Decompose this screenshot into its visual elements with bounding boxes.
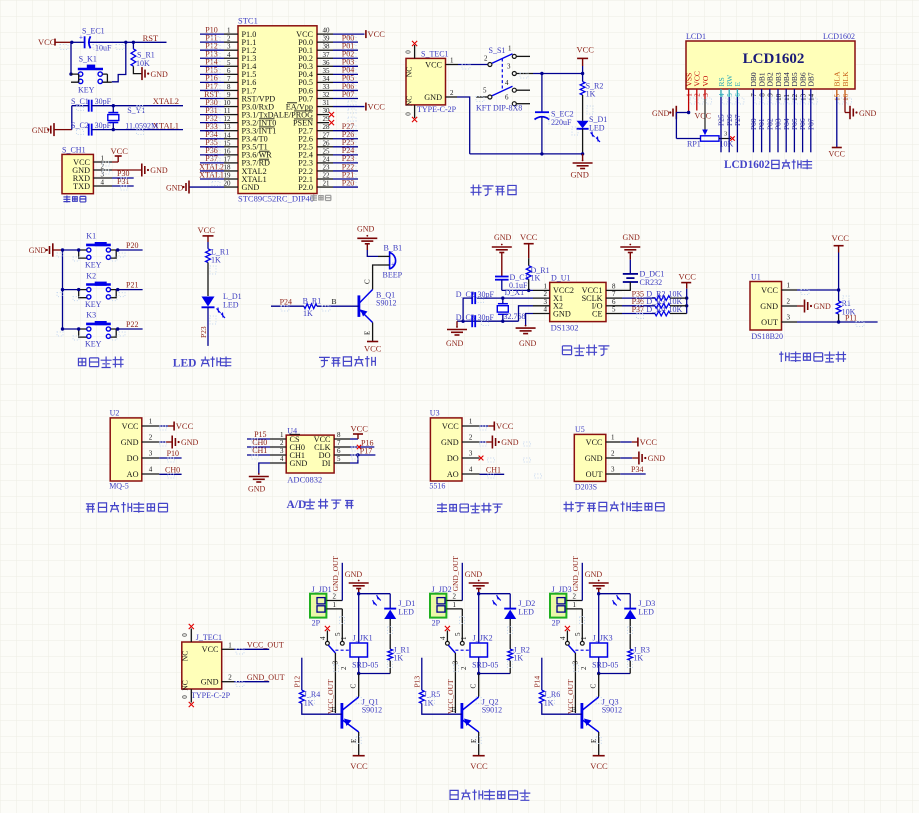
svg-text:GND: GND bbox=[424, 93, 442, 102]
diode J_D1 LED bbox=[373, 594, 416, 649]
svg-text:RST: RST bbox=[143, 33, 159, 43]
resistor D_R3 bbox=[622, 297, 687, 308]
svg-text:6: 6 bbox=[337, 447, 341, 455]
pin 25 STC1 right bbox=[298, 146, 358, 160]
svg-text:S_Y1: S_Y1 bbox=[127, 106, 145, 115]
ground bbox=[112, 164, 168, 177]
wire bbox=[350, 732, 359, 756]
svg-text:S9012: S9012 bbox=[362, 706, 382, 715]
svg-text:16: 16 bbox=[224, 147, 232, 155]
relay contact 4 bbox=[319, 626, 330, 645]
wire P27 bbox=[733, 89, 742, 152]
wire GND_OUT bbox=[222, 674, 270, 682]
wire CH1 bbox=[480, 473, 505, 475]
wire bbox=[590, 674, 599, 698]
pin 16 LCD1 BLK bbox=[841, 71, 850, 101]
svg-text:OUT: OUT bbox=[586, 470, 603, 479]
svg-text:STC1: STC1 bbox=[238, 16, 258, 26]
svg-text:D_X1: D_X1 bbox=[505, 288, 525, 297]
power flag VCC bbox=[38, 37, 56, 47]
svg-text:1K: 1K bbox=[633, 654, 643, 663]
svg-text:OUT: OUT bbox=[761, 318, 778, 327]
net label P24 bbox=[280, 297, 292, 306]
svg-text:P17: P17 bbox=[360, 446, 372, 455]
pin 2 wire bbox=[326, 563, 342, 601]
ground bbox=[652, 106, 689, 119]
net label P15 bbox=[254, 430, 266, 439]
svg-text:D_U1: D_U1 bbox=[551, 274, 571, 283]
power flag VCC bbox=[364, 342, 382, 354]
svg-text:VCC: VCC bbox=[442, 422, 459, 431]
wire X1 bbox=[475, 296, 533, 299]
pin 12 STC1 left bbox=[200, 114, 276, 128]
label PIR module bbox=[564, 502, 665, 512]
svg-text:GND: GND bbox=[760, 302, 778, 311]
pin 8 LCD1 DB1 bbox=[757, 72, 766, 97]
overlines bbox=[259, 119, 275, 159]
connector J_JD3 bbox=[550, 585, 572, 628]
svg-text:GND: GND bbox=[151, 70, 169, 79]
power flag VCC bbox=[350, 424, 368, 440]
power flag VCC bbox=[832, 233, 850, 301]
pin 27 STC1 right bbox=[298, 130, 358, 144]
wire BLA bbox=[829, 89, 845, 159]
svg-text:1: 1 bbox=[573, 601, 577, 609]
power flag VCC bbox=[159, 421, 193, 431]
svg-text:0: 0 bbox=[181, 633, 189, 637]
svg-text:2: 2 bbox=[484, 54, 488, 62]
resistor J_R1 bbox=[388, 646, 410, 674]
wire VSS bbox=[687, 89, 690, 114]
svg-text:7: 7 bbox=[750, 93, 758, 97]
pin 5 U4 bbox=[322, 455, 350, 468]
svg-text:VCC: VCC bbox=[38, 37, 56, 47]
svg-text:1: 1 bbox=[580, 636, 588, 640]
pin 10 LCD1 DB3 bbox=[774, 72, 783, 101]
svg-text:B: B bbox=[332, 297, 337, 306]
wire P20 bbox=[116, 248, 143, 251]
diode L_D1 LED bbox=[202, 292, 242, 318]
svg-text:VCC: VCC bbox=[695, 112, 711, 121]
label buzzer circuit bbox=[319, 356, 376, 367]
svg-text:1: 1 bbox=[228, 641, 232, 649]
key K3 bbox=[79, 311, 117, 349]
svg-text:GND: GND bbox=[623, 233, 641, 242]
svg-text:2: 2 bbox=[580, 666, 588, 670]
svg-text:9: 9 bbox=[767, 93, 775, 97]
svg-text:40: 40 bbox=[323, 27, 331, 35]
wire P25 bbox=[717, 89, 726, 152]
svg-text:VCC: VCC bbox=[586, 438, 603, 447]
pin 14 STC1 left bbox=[200, 130, 268, 144]
svg-text:U1: U1 bbox=[751, 273, 761, 282]
svg-text:8: 8 bbox=[337, 431, 341, 439]
svg-text:GND: GND bbox=[248, 485, 266, 494]
ghost marks bbox=[57, 37, 864, 744]
svg-text:20: 20 bbox=[224, 180, 232, 188]
svg-text:3: 3 bbox=[787, 314, 791, 322]
pin 0 top bbox=[405, 41, 418, 59]
pin 39 STC1 right bbox=[298, 33, 358, 47]
wire bbox=[470, 152, 585, 155]
connector J_JD2 bbox=[430, 585, 452, 628]
svg-text:3: 3 bbox=[452, 660, 460, 664]
svg-text:NC: NC bbox=[181, 651, 190, 661]
pin 2 U3 bbox=[441, 434, 480, 447]
pin 3 U3 bbox=[447, 450, 480, 463]
transistor J_Q3 bbox=[582, 697, 622, 732]
wire bbox=[357, 672, 390, 675]
svg-text:33: 33 bbox=[323, 83, 331, 91]
net label RST bbox=[143, 33, 159, 43]
svg-text:2: 2 bbox=[340, 666, 348, 670]
pin 7 U4 bbox=[314, 439, 350, 452]
svg-text:A/D: A/D bbox=[287, 499, 307, 511]
svg-text:2: 2 bbox=[280, 439, 284, 447]
svg-text:3: 3 bbox=[280, 447, 284, 455]
label download port bbox=[63, 196, 85, 203]
pin 1 wire bbox=[566, 601, 584, 645]
pin 21 STC1 right bbox=[298, 178, 358, 192]
wire VCC pin2 bbox=[695, 89, 711, 121]
svg-text:1: 1 bbox=[611, 434, 615, 442]
svg-text:8: 8 bbox=[227, 83, 231, 91]
wire bbox=[350, 455, 358, 463]
wire RST net bbox=[70, 41, 166, 44]
capacitor S_EC2 bbox=[535, 74, 574, 154]
wire bbox=[350, 674, 359, 698]
svg-text:BLK: BLK bbox=[841, 71, 850, 87]
svg-text:VCC: VCC bbox=[350, 761, 368, 771]
wire BLK bbox=[845, 89, 850, 113]
wire bbox=[112, 42, 126, 82]
svg-text:13: 13 bbox=[224, 123, 232, 131]
svg-text:4: 4 bbox=[149, 466, 153, 474]
svg-text:24: 24 bbox=[323, 155, 331, 163]
svg-text:GND: GND bbox=[585, 454, 603, 463]
svg-text:P2.0: P2.0 bbox=[298, 183, 313, 192]
pin 36 STC1 right bbox=[298, 58, 358, 72]
svg-text:0: 0 bbox=[405, 112, 413, 116]
svg-text:P11: P11 bbox=[845, 313, 857, 322]
capacitor D_C2 bbox=[456, 290, 495, 304]
pin 8 D_U1 bbox=[582, 282, 622, 295]
svg-text:23: 23 bbox=[323, 163, 331, 171]
pin 1 U4 bbox=[270, 431, 300, 444]
ground bbox=[516, 314, 537, 349]
svg-text:2: 2 bbox=[228, 674, 232, 682]
svg-text:9: 9 bbox=[227, 91, 231, 99]
pin DO no connect bbox=[479, 456, 484, 461]
ic U4 body bbox=[286, 426, 334, 484]
svg-text:1: 1 bbox=[508, 44, 512, 52]
ground bbox=[585, 570, 609, 594]
overline CS bbox=[290, 433, 301, 435]
power flag VCC bbox=[480, 421, 514, 431]
pin 4 S_CH1 bbox=[93, 178, 112, 186]
svg-text:AO: AO bbox=[127, 470, 139, 479]
svg-text:TXD: TXD bbox=[73, 182, 90, 191]
svg-text:1: 1 bbox=[469, 418, 473, 426]
pin 6 U4 bbox=[319, 447, 350, 460]
pin 3 S_CH1 bbox=[93, 170, 112, 178]
wire bbox=[590, 732, 599, 756]
net label P11 bbox=[845, 313, 857, 322]
ground bbox=[446, 321, 467, 348]
wire CH0 bbox=[247, 446, 270, 448]
svg-text:B: B bbox=[452, 705, 457, 714]
svg-text:VCC: VCC bbox=[364, 344, 382, 354]
svg-text:P20: P20 bbox=[126, 241, 138, 250]
svg-text:18: 18 bbox=[224, 163, 232, 171]
svg-text:2: 2 bbox=[453, 593, 457, 601]
svg-text:11.0592M: 11.0592M bbox=[125, 121, 158, 130]
svg-text:VCC: VCC bbox=[496, 421, 514, 431]
pin 2 U2 bbox=[121, 434, 160, 447]
svg-text:STC89C52RC_DIP40: STC89C52RC_DIP40 bbox=[238, 194, 314, 204]
capacitor S_C2 bbox=[71, 121, 112, 135]
svg-text:D_R4: D_R4 bbox=[646, 305, 665, 314]
svg-text:1K: 1K bbox=[393, 654, 403, 663]
ic U5 body bbox=[574, 425, 606, 492]
wire P15 bbox=[247, 438, 270, 440]
label clock module bbox=[562, 345, 609, 356]
svg-text:3: 3 bbox=[702, 93, 710, 97]
svg-text:B: B bbox=[572, 705, 577, 714]
svg-text:3: 3 bbox=[227, 43, 231, 51]
pin 18 STC1 left bbox=[199, 162, 267, 176]
svg-text:3: 3 bbox=[611, 466, 615, 474]
svg-text:K3: K3 bbox=[86, 311, 96, 320]
svg-text:3: 3 bbox=[332, 660, 340, 664]
svg-text:VCC: VCC bbox=[640, 437, 658, 447]
svg-text:38: 38 bbox=[323, 43, 331, 51]
label temperature module bbox=[779, 352, 846, 363]
svg-text:S9012: S9012 bbox=[602, 706, 622, 715]
ic STC1 body bbox=[238, 16, 331, 204]
wire P14 bbox=[533, 658, 542, 690]
wire P34 bbox=[620, 473, 645, 475]
pin 4 U4 bbox=[270, 455, 307, 468]
svg-text:19: 19 bbox=[224, 172, 232, 180]
svg-text:LCD1602: LCD1602 bbox=[724, 159, 770, 171]
svg-text:27: 27 bbox=[323, 131, 331, 139]
svg-text:0: 0 bbox=[405, 50, 413, 54]
net label GND_OUT bbox=[451, 556, 460, 592]
svg-text:J_JK1: J_JK1 bbox=[353, 634, 373, 643]
pin 17 STC1 left bbox=[200, 154, 270, 168]
wire VCC_OUT bbox=[326, 653, 340, 714]
svg-text:BEEP: BEEP bbox=[383, 271, 403, 280]
wire XTAL1 net bbox=[92, 128, 183, 131]
crystal S_Y1 bbox=[108, 106, 158, 131]
key K1 bbox=[79, 232, 117, 270]
svg-text:VCC: VCC bbox=[351, 424, 369, 434]
svg-text:LED: LED bbox=[173, 358, 197, 370]
svg-text:GND_OUT: GND_OUT bbox=[451, 556, 460, 592]
svg-text:CR232: CR232 bbox=[640, 278, 663, 287]
svg-text:29: 29 bbox=[323, 115, 331, 123]
pin 4 LCD1 RS bbox=[717, 77, 726, 96]
svg-text:21: 21 bbox=[323, 180, 331, 188]
pin 8 STC1 left bbox=[200, 82, 256, 96]
net label P22 bbox=[126, 320, 138, 329]
svg-text:B_R1: B_R1 bbox=[303, 297, 322, 306]
pin 1 U2 bbox=[122, 418, 160, 431]
label LCD module bbox=[724, 159, 812, 171]
label LED circuit bbox=[173, 357, 232, 370]
label power circuit bbox=[471, 185, 517, 196]
wire bbox=[470, 674, 479, 698]
wire bbox=[271, 297, 359, 306]
svg-text:7: 7 bbox=[227, 75, 231, 83]
svg-text:C: C bbox=[470, 684, 478, 689]
svg-text:S_TEC1: S_TEC1 bbox=[421, 50, 449, 59]
ground bbox=[620, 233, 640, 274]
svg-text:25: 25 bbox=[323, 147, 331, 155]
svg-text:6: 6 bbox=[505, 93, 509, 101]
resistor J_R4 bbox=[299, 690, 320, 708]
wire P31 bbox=[112, 185, 134, 187]
svg-text:P13: P13 bbox=[413, 676, 422, 688]
wire bbox=[597, 592, 630, 643]
svg-text:37: 37 bbox=[323, 51, 331, 59]
pin 6 D_U1 bbox=[592, 298, 622, 311]
pin 3 STC1 left bbox=[200, 42, 256, 56]
capacitor S_EC1 bbox=[79, 26, 112, 52]
pin 1 U3 bbox=[442, 418, 480, 431]
wire bbox=[357, 592, 390, 643]
pin 33 STC1 right bbox=[298, 82, 358, 96]
svg-text:5: 5 bbox=[612, 306, 616, 314]
svg-text:GND: GND bbox=[465, 570, 483, 579]
wire bbox=[133, 66, 141, 73]
capacitor D_C1 bbox=[495, 273, 529, 290]
pin 3 U1 bbox=[761, 314, 797, 327]
transistor J_Q1 bbox=[342, 697, 382, 732]
relay contact 4 bbox=[559, 626, 570, 645]
wire P13 bbox=[413, 658, 422, 690]
svg-text:35: 35 bbox=[323, 67, 331, 75]
svg-text:GND: GND bbox=[652, 109, 670, 118]
svg-text:VCC: VCC bbox=[470, 761, 488, 771]
svg-text:6: 6 bbox=[734, 93, 742, 97]
svg-text:220uF: 220uF bbox=[551, 118, 572, 127]
svg-text:1K: 1K bbox=[531, 273, 541, 282]
svg-text:2P: 2P bbox=[552, 619, 561, 628]
resistor J_R6 bbox=[539, 690, 560, 708]
ground bbox=[248, 463, 270, 494]
net label CH1 bbox=[486, 465, 501, 474]
svg-text:5: 5 bbox=[334, 632, 342, 636]
label gas module bbox=[86, 502, 168, 513]
net label CH1 bbox=[252, 446, 267, 455]
svg-text:DO: DO bbox=[127, 454, 139, 463]
svg-text:26: 26 bbox=[323, 139, 331, 147]
svg-text:4: 4 bbox=[101, 178, 105, 186]
svg-text:AO: AO bbox=[447, 470, 459, 479]
diode J_D3 LED bbox=[613, 594, 656, 649]
svg-text:GND_OUT: GND_OUT bbox=[331, 556, 340, 592]
svg-text:GND: GND bbox=[494, 233, 512, 242]
wire bbox=[367, 250, 378, 256]
pin 1 LCD1 VSS bbox=[684, 73, 693, 97]
ground bbox=[465, 570, 489, 594]
ground bbox=[166, 181, 189, 194]
svg-text:VCC: VCC bbox=[176, 421, 194, 431]
svg-text:J_JD3: J_JD3 bbox=[552, 585, 572, 594]
svg-text:TYPE-C-2P: TYPE-C-2P bbox=[417, 105, 457, 114]
svg-text:E: E bbox=[364, 331, 372, 335]
svg-text:S_C2: S_C2 bbox=[71, 121, 89, 130]
svg-text:VCC_OUT: VCC_OUT bbox=[247, 641, 284, 650]
resistor D_R1 bbox=[526, 258, 549, 290]
pin 7 STC1 left bbox=[200, 74, 256, 88]
svg-text:VCC: VCC bbox=[198, 225, 216, 235]
pin 2 U5 bbox=[585, 450, 621, 463]
wire bbox=[55, 41, 71, 43]
svg-text:E: E bbox=[733, 82, 742, 87]
wire P11 bbox=[797, 320, 878, 323]
svg-text:31: 31 bbox=[323, 99, 331, 107]
net label P31 bbox=[117, 177, 129, 186]
svg-text:P27: P27 bbox=[733, 114, 742, 126]
pin 3 U5 bbox=[586, 466, 621, 479]
svg-text:GND: GND bbox=[441, 438, 459, 447]
pin 0 bottom bbox=[181, 689, 194, 707]
net label GND_OUT bbox=[331, 556, 340, 592]
svg-text:J_JK3: J_JK3 bbox=[593, 634, 613, 643]
svg-text:15: 15 bbox=[224, 139, 232, 147]
wire P21 bbox=[116, 288, 143, 291]
wire bbox=[422, 703, 462, 714]
pin 0 top bbox=[181, 624, 194, 642]
resistor J_R5 bbox=[419, 690, 440, 708]
svg-text:8: 8 bbox=[758, 93, 766, 97]
wire P05 bbox=[790, 89, 799, 152]
svg-text:5: 5 bbox=[726, 93, 734, 97]
svg-text:CH0: CH0 bbox=[165, 465, 180, 474]
svg-text:VCC: VCC bbox=[577, 45, 595, 55]
svg-text:VCC: VCC bbox=[590, 761, 608, 771]
power flag VCC bbox=[198, 225, 216, 242]
svg-text:P12: P12 bbox=[293, 676, 302, 688]
net label P30 bbox=[117, 169, 129, 178]
svg-text:LCD1: LCD1 bbox=[686, 32, 706, 41]
svg-text:5: 5 bbox=[227, 59, 231, 67]
net label GND_OUT bbox=[571, 556, 580, 592]
pin 5 STC1 left bbox=[200, 58, 256, 72]
pin 8 U4 bbox=[314, 431, 350, 444]
svg-text:2P: 2P bbox=[432, 619, 441, 628]
svg-text:C: C bbox=[364, 279, 372, 284]
svg-text:1: 1 bbox=[333, 601, 337, 609]
svg-text:1: 1 bbox=[450, 56, 454, 64]
pin 1 wire bbox=[446, 56, 488, 64]
svg-text:ADC0832: ADC0832 bbox=[287, 475, 322, 485]
svg-text:C: C bbox=[590, 684, 598, 689]
pin 9 LCD1 DB2 bbox=[766, 72, 775, 97]
svg-text:GND: GND bbox=[201, 677, 219, 686]
svg-text:12: 12 bbox=[224, 115, 232, 123]
svg-text:K1: K1 bbox=[86, 232, 96, 241]
pin 34 STC1 right bbox=[298, 74, 358, 88]
pin 2 wire bbox=[566, 563, 582, 601]
ic D_U1 body bbox=[550, 274, 606, 333]
pin 13 STC1 left bbox=[200, 122, 276, 136]
svg-text:3: 3 bbox=[469, 450, 473, 458]
ground bbox=[142, 67, 168, 80]
